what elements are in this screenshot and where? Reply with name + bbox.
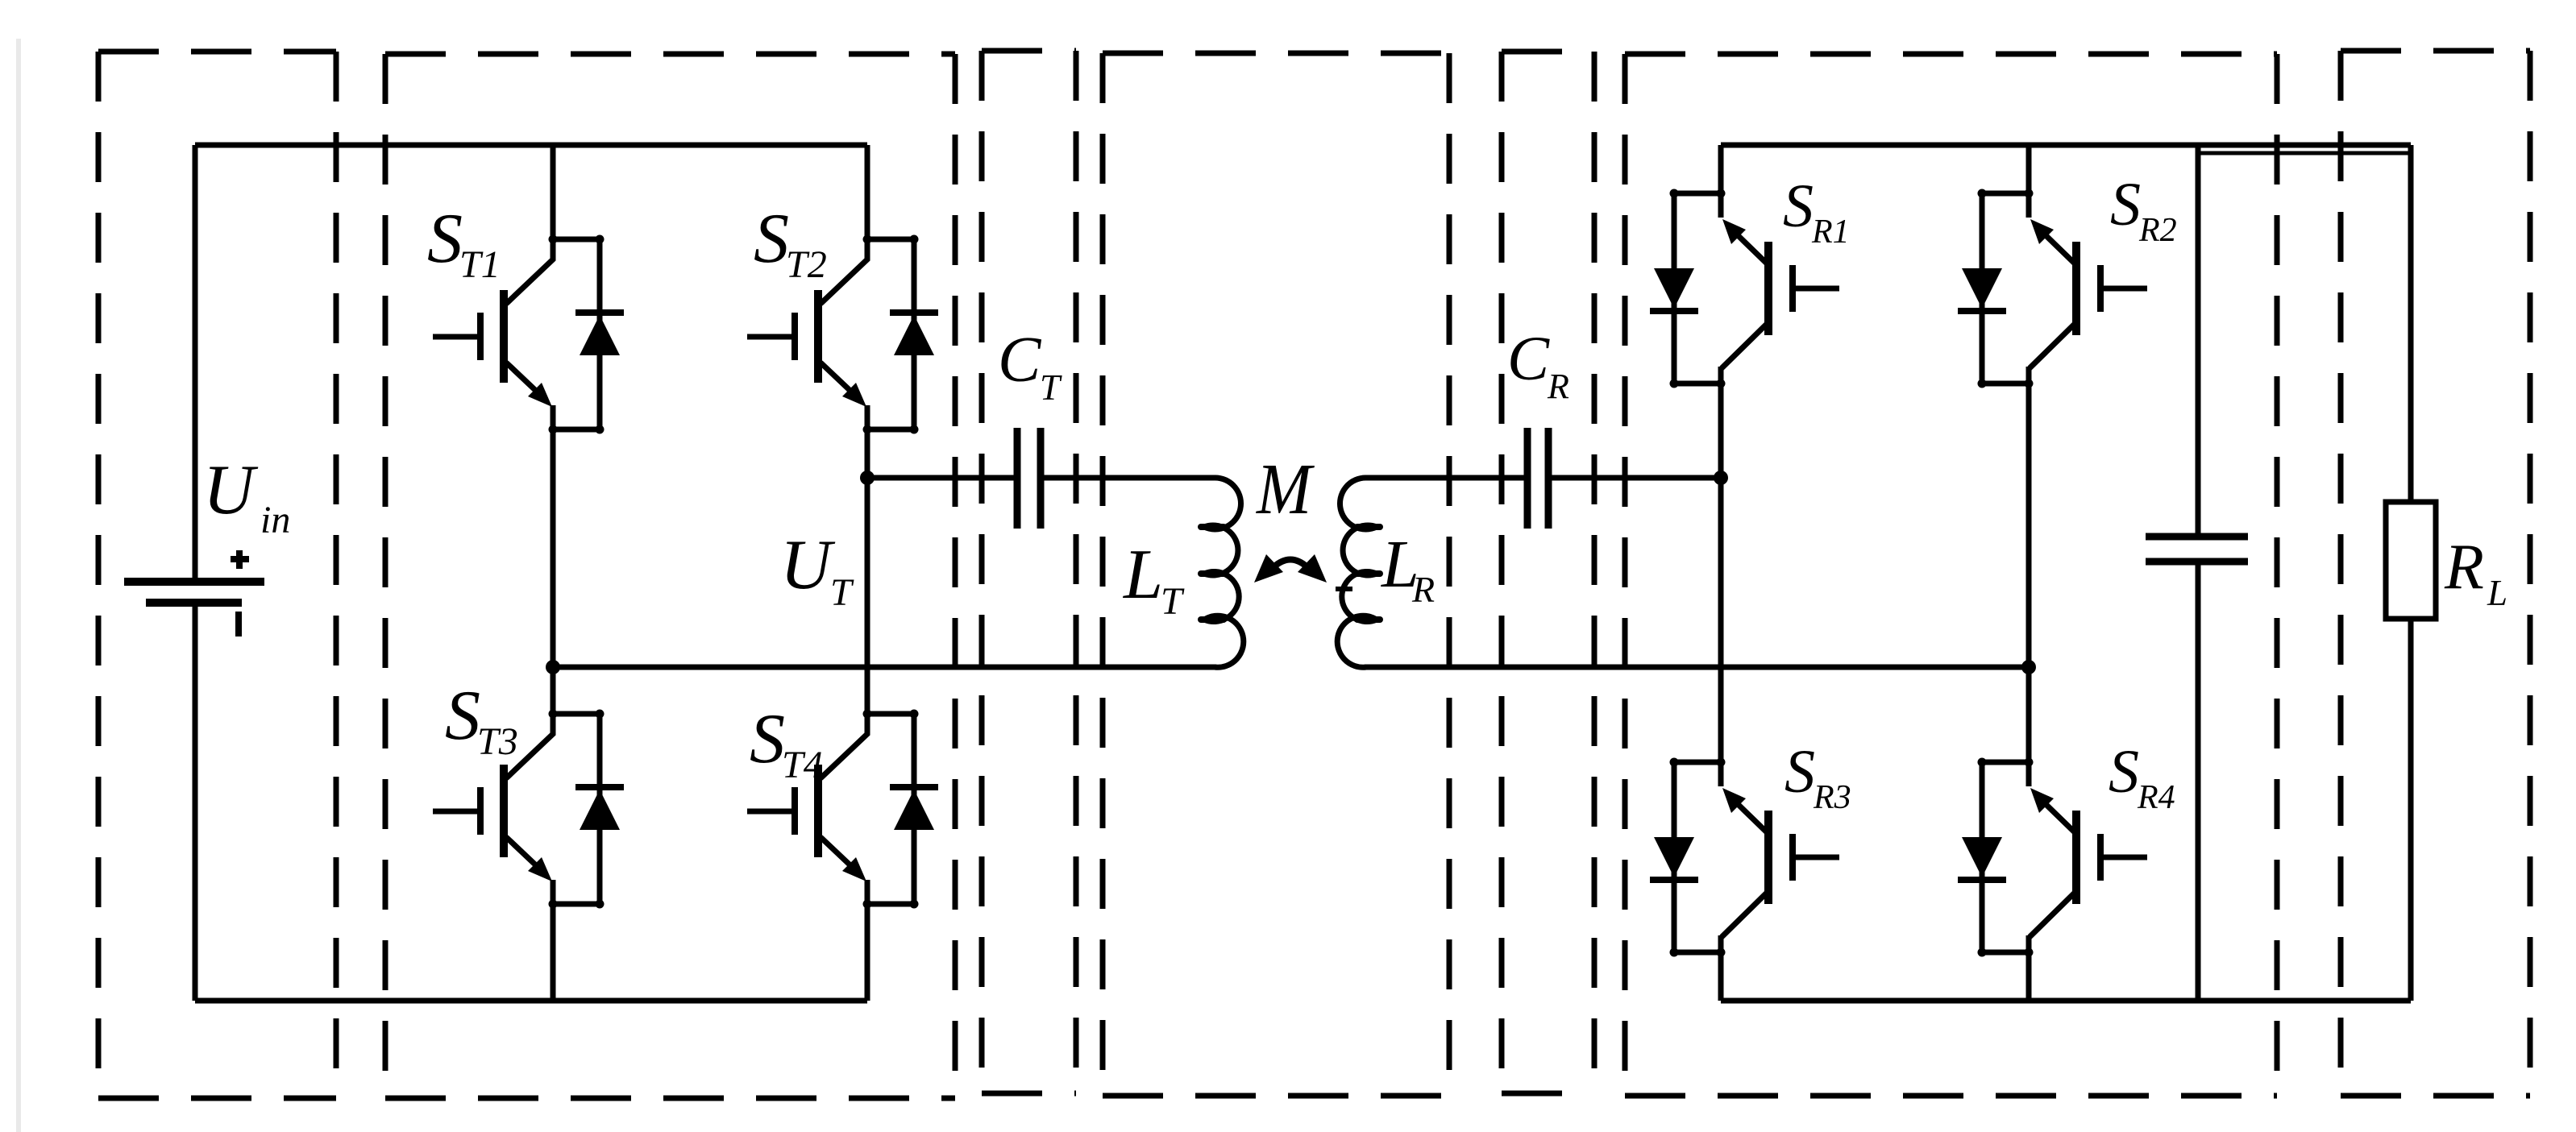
dashed box: rectifier stage [1625, 54, 2277, 1096]
dashed box: DC source stage [98, 52, 336, 1098]
svg-text:R: R [1547, 367, 1569, 406]
wire: S_R2 collector leg [2026, 145, 2032, 196]
wire: L_R bottom to rectifier right midpoint [1365, 665, 2029, 670]
svg-text:S: S [427, 200, 463, 278]
svg-text:T: T [830, 571, 854, 614]
svg-text:U: U [203, 451, 259, 529]
wire: S_T2 emitter to node U_T [865, 429, 870, 478]
wire: S_R1 emitter to left midpoint [1718, 384, 1724, 478]
wire: S_T3 collector leg [551, 667, 556, 716]
coil cusp ticks L_R [1357, 527, 1380, 620]
wire: S_T4 collector leg [865, 478, 870, 716]
wire: S_T2 collector leg [865, 145, 870, 242]
svg-text:S: S [445, 677, 480, 755]
wire: L_T bottom to inverter left midpoint [553, 665, 1216, 670]
svg-text:S: S [754, 200, 789, 278]
capacitor: output filter [2146, 145, 2248, 1001]
node: rectifier left midpoint [1714, 471, 1728, 485]
inductor L_R [1337, 478, 1377, 667]
inductor L_T [1204, 478, 1244, 667]
svg-text:L: L [2487, 573, 2507, 613]
svg-text:L: L [1122, 536, 1163, 614]
resistor R_L [2386, 145, 2436, 1001]
wire: S_R2 emitter to right midpoint [2026, 384, 2032, 667]
page edge artifact (light gray line) [16, 39, 21, 1132]
wire: inverter bottom rail [195, 998, 867, 1004]
wire: rectifier top rail [1721, 143, 2411, 148]
svg-text:T3: T3 [477, 720, 518, 763]
svg-text:R4: R4 [2137, 779, 2175, 816]
transistor ST4 (IGBT with antiparallel diode) [747, 710, 938, 909]
capacitor C_T [1017, 428, 1041, 529]
dashed box: coupled coils stage [1103, 53, 1449, 1096]
svg-text:S: S [2110, 171, 2141, 238]
mutual coupling M (double arrow) [1254, 554, 1327, 583]
wire: C_R to rectifier left midpoint [1548, 475, 1721, 481]
wire: U_T to C_T [867, 475, 1017, 481]
svg-text:T2: T2 [786, 243, 827, 286]
dashed box: load stage [2341, 51, 2530, 1096]
wire: inverter top rail [195, 143, 867, 148]
node: inverter left midpoint [546, 660, 560, 674]
svg-text:in: in [260, 499, 290, 541]
svg-text:T: T [1040, 367, 1062, 408]
transistor SR1 (IGBT with antiparallel diode) [1650, 189, 1839, 388]
svg-text:R1: R1 [1811, 214, 1850, 251]
transistor ST1 (IGBT with antiparallel diode) [433, 235, 624, 434]
transistor SR2 (IGBT with antiparallel diode) [1958, 189, 2147, 388]
battery U_in [124, 145, 264, 1001]
svg-text:T: T [1161, 580, 1185, 623]
wire: S_R1 collector leg [1718, 145, 1724, 196]
wire: L_R to C_R [1365, 475, 1527, 481]
transistor SR4 (IGBT with antiparallel diode) [1958, 758, 2147, 957]
svg-text:T1: T1 [459, 243, 501, 286]
svg-text:M: M [1255, 448, 1315, 529]
wire: S_R4 emitter to bottom rail [2026, 952, 2032, 1001]
dashed box: inverter stage [385, 54, 955, 1098]
svg-text:S: S [750, 700, 785, 778]
svg-text:U: U [780, 526, 836, 604]
svg-text:S: S [1783, 172, 1814, 240]
node: rectifier right midpoint [2021, 660, 2036, 674]
svg-text:S: S [2109, 738, 2139, 806]
transistor ST2 (IGBT with antiparallel diode) [747, 235, 938, 434]
dashed box: capacitor CT stage [982, 51, 1076, 1093]
wire: C_T to L_T [1041, 475, 1216, 481]
coil cusp ticks L_T [1201, 527, 1224, 620]
svg-text:C: C [998, 325, 1042, 396]
dashed box: capacitor CR stage [1502, 52, 1594, 1093]
wire: rectifier bottom rail [1721, 998, 2411, 1004]
wire: S_R4 collector leg [2026, 667, 2032, 786]
wire: S_T1 emitter to midpoint node [551, 429, 556, 667]
wire: S_T3 emitter to bottom rail [551, 904, 556, 1001]
wire: S_R3 collector leg [1718, 478, 1724, 786]
svg-text:R2: R2 [2138, 212, 2177, 249]
transistor SR3 (IGBT with antiparallel diode) [1650, 758, 1839, 957]
svg-text:R: R [1411, 569, 1435, 610]
capacitor C_R [1527, 428, 1548, 529]
transistor ST3 (IGBT with antiparallel diode) [433, 710, 624, 909]
wire: output link (parallel line) [2200, 151, 2409, 155]
wire: S_R3 emitter to bottom rail [1718, 952, 1724, 1001]
wire: S_T4 emitter to bottom rail [865, 904, 870, 1001]
tick near L_R [1336, 587, 1352, 591]
wire: S_T1 collector leg [551, 145, 556, 242]
svg-text:R3: R3 [1813, 779, 1851, 816]
svg-text:T4: T4 [782, 744, 823, 786]
svg-text:R: R [2444, 532, 2484, 603]
node U_T [860, 471, 875, 485]
svg-text:C: C [1507, 323, 1550, 393]
svg-text:S: S [1785, 738, 1815, 806]
